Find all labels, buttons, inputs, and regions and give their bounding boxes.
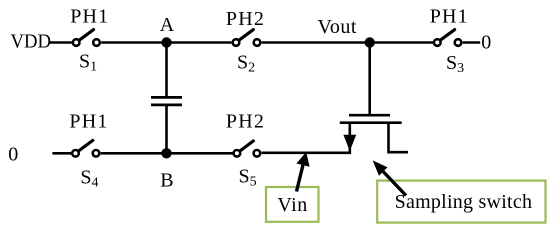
label S3 xyxy=(446,52,464,76)
transistor M1 drain leg xyxy=(389,123,409,153)
label S5 xyxy=(239,166,257,190)
label Vout xyxy=(318,16,357,38)
capacitor C1 plates xyxy=(151,97,182,105)
svg-text:PH2: PH2 xyxy=(226,110,265,132)
arrow from Sampling switch box to transistor xyxy=(373,160,406,195)
node B xyxy=(161,148,171,158)
svg-text:Vout: Vout xyxy=(318,16,357,38)
label 0 left xyxy=(8,143,18,165)
svg-text:PH1: PH1 xyxy=(70,6,109,28)
label PH1 of S1 xyxy=(70,6,109,28)
switch S5 xyxy=(234,141,261,157)
svg-text:PH1: PH1 xyxy=(69,110,108,132)
svg-text:S1: S1 xyxy=(79,51,97,75)
capacitor C1 bottom lead to node B xyxy=(165,106,168,153)
label PH2 of S5 xyxy=(226,110,265,132)
node Vout xyxy=(365,37,375,47)
svg-text:PH1: PH1 xyxy=(430,5,469,27)
wire S4 to node B xyxy=(101,152,167,155)
wire S3 to 0 xyxy=(463,41,481,44)
arrow from Vin box to Vin line xyxy=(296,152,309,192)
label A xyxy=(160,14,175,36)
svg-text:PH2: PH2 xyxy=(226,8,265,30)
transistor M1 gate bar xyxy=(349,114,390,117)
callout box Vin xyxy=(266,187,319,222)
svg-text:A: A xyxy=(160,14,175,36)
svg-text:S3: S3 xyxy=(446,52,464,76)
svg-text:0: 0 xyxy=(8,143,18,165)
label S2 xyxy=(237,52,255,76)
callout box Sampling switch xyxy=(377,181,545,223)
svg-text:Vin: Vin xyxy=(277,194,307,216)
wire S5 to sampling transistor source (Vin line) xyxy=(262,152,352,155)
label PH1 of S4 xyxy=(69,110,108,132)
transistor M1 gate lead from Vout xyxy=(368,43,371,117)
switch S2 xyxy=(233,30,261,46)
wire VDD to S1 xyxy=(50,41,72,44)
label PH2 of S2 xyxy=(226,8,265,30)
wire node B to S5 xyxy=(167,152,233,155)
switch S1 xyxy=(73,30,100,46)
wire S1 to node A xyxy=(101,41,166,44)
label S1 xyxy=(79,51,97,75)
label 0 right xyxy=(481,31,491,53)
svg-text:S2: S2 xyxy=(237,52,255,76)
wire S2 to node Vout xyxy=(262,41,370,44)
svg-text:B: B xyxy=(160,170,173,192)
label PH1 of S3 xyxy=(430,5,469,27)
capacitor C1 top lead from node A xyxy=(165,43,168,97)
svg-text:VDD: VDD xyxy=(11,31,52,53)
svg-text:0: 0 xyxy=(481,31,491,53)
label S4 xyxy=(80,166,98,190)
transistor M1 source leg with arrow xyxy=(343,123,356,153)
label B xyxy=(160,170,173,192)
svg-text:S5: S5 xyxy=(239,166,257,190)
wire Vout to S3 xyxy=(370,41,433,44)
label VDD xyxy=(11,31,52,53)
wire node A to S2 xyxy=(167,41,232,44)
switch S3 xyxy=(434,30,461,46)
svg-text:Sampling switch: Sampling switch xyxy=(395,191,533,213)
transistor M1 channel bar xyxy=(340,121,402,124)
label Vin xyxy=(277,194,307,216)
wire 0 to S4 xyxy=(52,152,71,155)
label Sampling switch xyxy=(395,191,533,213)
node A xyxy=(161,37,171,47)
switch S4 xyxy=(72,140,99,156)
svg-text:S4: S4 xyxy=(80,166,98,190)
